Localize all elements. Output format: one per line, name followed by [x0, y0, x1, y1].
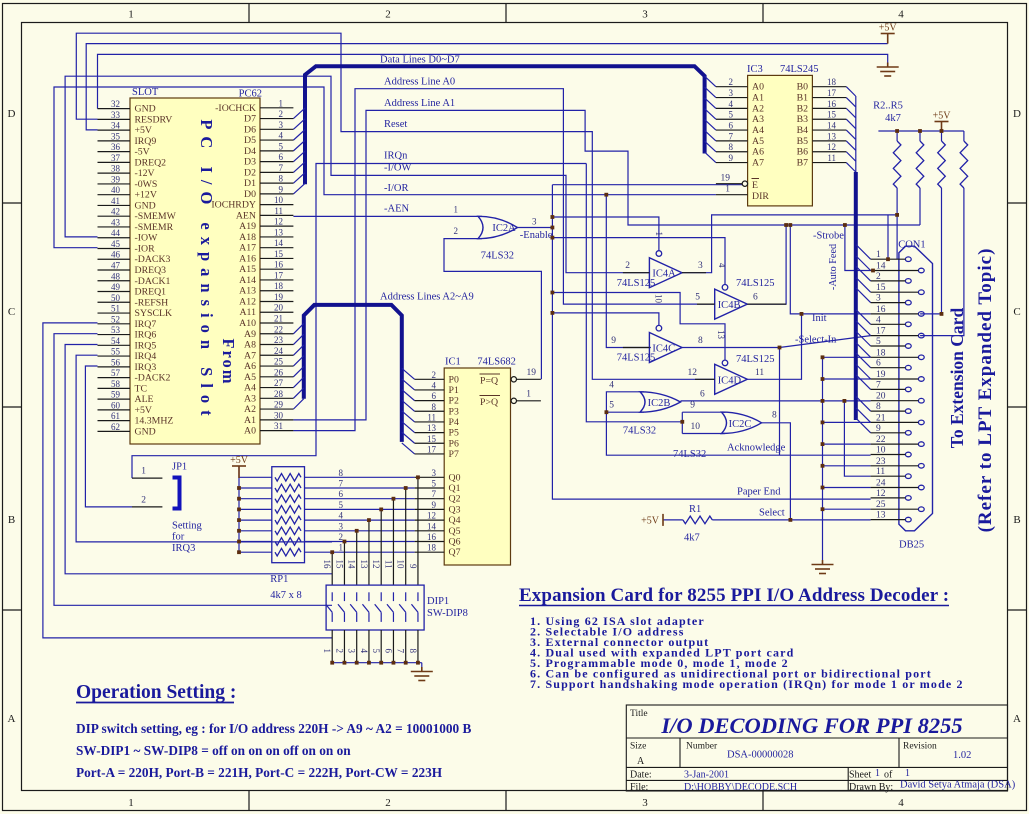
svg-text:14: 14 — [876, 262, 886, 272]
svg-text:Q2: Q2 — [449, 494, 461, 505]
svg-text:4: 4 — [717, 263, 727, 268]
svg-text:Address Line A1: Address Line A1 — [384, 98, 455, 109]
wire -I/OR (pin45 to IC3 DIR and IC4C input9) — [54, 87, 716, 348]
svg-text:11: 11 — [383, 560, 393, 569]
svg-text:5: 5 — [609, 401, 614, 411]
wire Reset (RESDRV pin33 - Reset - Init to CON1 pin16) — [76, 33, 714, 379]
svg-text:RP1: RP1 — [270, 574, 288, 585]
svg-text:Acknowledge: Acknowledge — [727, 443, 786, 454]
svg-text:B5: B5 — [797, 136, 809, 147]
svg-text:A2: A2 — [244, 404, 256, 415]
svg-text:A19: A19 — [239, 221, 256, 232]
rotated label To Extension Card — [947, 248, 996, 533]
svg-text:A10: A10 — [239, 318, 256, 329]
feature list — [530, 614, 964, 691]
RP1 right side wires to IC1 Q pins — [305, 468, 415, 553]
svg-text:P3: P3 — [449, 406, 459, 417]
svg-text:16: 16 — [322, 560, 332, 570]
svg-text:7: 7 — [432, 489, 437, 499]
wire R3 bottom joins -AutoFeed rail — [919, 188, 921, 225]
svg-text:74LS32: 74LS32 — [623, 426, 656, 437]
svg-text:P4: P4 — [449, 417, 459, 428]
svg-text:55: 55 — [111, 347, 121, 357]
svg-text:48: 48 — [111, 271, 121, 281]
svg-text:-IOW: -IOW — [135, 233, 159, 244]
svg-text:IRQn: IRQn — [384, 151, 408, 162]
svg-text:GND: GND — [135, 200, 156, 211]
svg-text:1: 1 — [725, 185, 730, 195]
svg-text:7: 7 — [876, 380, 881, 390]
wire IC2B output6 to Busy CON1 pin20 and pin11 — [681, 401, 871, 476]
svg-text:1: 1 — [875, 768, 880, 779]
svg-text:IRQ7: IRQ7 — [135, 319, 157, 330]
svg-text:B: B — [1013, 514, 1020, 526]
svg-text:53: 53 — [111, 325, 121, 335]
wire IRQ7 (pin52) — [43, 323, 332, 638]
svg-text:74LS125: 74LS125 — [736, 354, 775, 365]
svg-text:B7: B7 — [797, 158, 809, 169]
svg-text:A1: A1 — [752, 93, 764, 104]
svg-text:-I/OR: -I/OR — [384, 183, 409, 194]
svg-text:A9: A9 — [244, 329, 256, 340]
bus entries IC3 B0-B7 — [846, 87, 855, 172]
svg-text:33: 33 — [111, 110, 121, 120]
svg-text:50: 50 — [111, 293, 121, 303]
tri-state buffer IC4A 74LS125 — [617, 232, 706, 290]
svg-text:10: 10 — [691, 422, 701, 432]
svg-text:52: 52 — [111, 314, 120, 324]
svg-text:B4: B4 — [797, 125, 809, 136]
svg-text:Q6: Q6 — [449, 537, 461, 548]
svg-text:Sheet: Sheet — [849, 770, 871, 781]
svg-text:AEN: AEN — [236, 210, 256, 221]
svg-text:8: 8 — [876, 402, 881, 412]
DIP switch risers to Q rows — [332, 477, 418, 585]
svg-text:+5V: +5V — [135, 125, 153, 136]
svg-text:D2: D2 — [244, 167, 256, 178]
svg-text:9: 9 — [690, 401, 695, 411]
svg-text:Select: Select — [759, 507, 785, 518]
wire -I/OW (pin44 to IC4A input2) — [65, 76, 649, 273]
svg-text:A3: A3 — [244, 393, 256, 404]
svg-text:IC4D: IC4D — [718, 375, 742, 386]
svg-text:PC I/O expansion Slot: PC I/O expansion Slot — [197, 119, 216, 422]
svg-text:DREQ1: DREQ1 — [135, 287, 167, 298]
svg-text:30: 30 — [274, 410, 284, 420]
svg-text:A5: A5 — [752, 136, 764, 147]
svg-text:Size: Size — [630, 742, 646, 752]
svg-text:IC1: IC1 — [445, 357, 461, 368]
wire IRQn (JP1 pin1 riser and IRQn line) — [132, 164, 586, 479]
svg-text:25: 25 — [876, 500, 886, 510]
svg-text:+5V: +5V — [933, 111, 952, 122]
svg-text:21: 21 — [274, 314, 283, 324]
svg-text:1: 1 — [322, 649, 332, 654]
wire IRQ6 (pin53) — [54, 334, 332, 606]
svg-text:10: 10 — [396, 560, 406, 570]
svg-text:+5V: +5V — [135, 405, 153, 416]
wire IC4C enable ctrl — [552, 313, 659, 326]
svg-text:2: 2 — [729, 77, 734, 87]
svg-text:Q7: Q7 — [449, 547, 461, 558]
svg-text:5: 5 — [339, 500, 344, 510]
svg-text:14.3MHZ: 14.3MHZ — [135, 416, 174, 427]
svg-text:P1: P1 — [449, 385, 459, 396]
svg-text:ALE: ALE — [135, 394, 154, 405]
svg-text:of: of — [884, 770, 893, 781]
svg-text:26: 26 — [274, 367, 284, 377]
svg-text:IRQ9: IRQ9 — [135, 136, 157, 147]
tri-state buffer IC4B 74LS125 — [695, 263, 786, 319]
svg-text:Q0: Q0 — [449, 472, 461, 483]
svg-text:A: A — [637, 756, 645, 767]
svg-text:-IOCHCK: -IOCHCK — [215, 103, 256, 114]
svg-text:+5V: +5V — [879, 23, 898, 34]
svg-text:1: 1 — [454, 205, 459, 215]
bus entries CON1 stubs — [856, 245, 871, 433]
svg-text:1: 1 — [876, 250, 881, 260]
IC3 left pins A0-A7 (2-9) — [716, 77, 764, 168]
svg-text:A13: A13 — [239, 286, 256, 297]
svg-text:6: 6 — [876, 359, 881, 369]
svg-text:Address Lines A2~A9: Address Lines A2~A9 — [380, 292, 474, 303]
wire IRQ3 (pin56 to JP1 pin2) — [85, 366, 132, 507]
switch DIP1 SW-DIP8 — [322, 560, 468, 654]
svg-text:2: 2 — [625, 261, 630, 271]
title block — [626, 705, 1007, 791]
svg-text:P>Q: P>Q — [480, 397, 498, 408]
svg-text:B0: B0 — [797, 82, 809, 93]
svg-text:B1: B1 — [797, 93, 809, 104]
wire Select (R1 to CON1 pin13) — [663, 519, 871, 521]
svg-text:11: 11 — [755, 368, 764, 378]
svg-text:7: 7 — [339, 479, 344, 489]
svg-text:13: 13 — [827, 131, 837, 141]
svg-text:RESDRV: RESDRV — [135, 114, 173, 125]
svg-text:3-Jan-2001: 3-Jan-2001 — [684, 770, 729, 781]
svg-text:1: 1 — [905, 768, 910, 779]
svg-text:A18: A18 — [239, 232, 256, 243]
wire -AEN (pin11 to IC2A input1) — [293, 215, 482, 217]
wire R2 bottom to CON1 pin1 — [896, 188, 898, 259]
svg-text:39: 39 — [111, 174, 121, 184]
svg-text:P6: P6 — [449, 438, 459, 449]
svg-text:CON1: CON1 — [898, 240, 925, 251]
svg-text:IRQ3: IRQ3 — [172, 543, 195, 554]
svg-text:17: 17 — [274, 270, 284, 280]
wire Init (from A1 rail riser to CON1 pin16) — [790, 225, 870, 314]
svg-text:D4: D4 — [244, 146, 256, 157]
svg-text:A14: A14 — [239, 275, 256, 286]
svg-text:DIP1: DIP1 — [427, 596, 449, 607]
IC3 pin 1 DIR — [716, 185, 769, 203]
svg-text:23: 23 — [274, 335, 284, 345]
svg-text:A7: A7 — [244, 350, 256, 361]
svg-text:4: 4 — [279, 131, 284, 141]
svg-text:5: 5 — [876, 337, 881, 347]
svg-text:19: 19 — [527, 368, 537, 378]
svg-text:-SMEMW: -SMEMW — [135, 211, 177, 222]
svg-text:9: 9 — [408, 564, 418, 569]
svg-text:2: 2 — [385, 797, 391, 809]
svg-text:-DACK1: -DACK1 — [135, 276, 171, 287]
svg-text:23: 23 — [876, 457, 886, 467]
svg-text:P5: P5 — [449, 428, 459, 439]
svg-text:DB25: DB25 — [899, 540, 924, 551]
svg-text:4k7: 4k7 — [885, 113, 901, 124]
svg-text:P0: P0 — [449, 374, 459, 385]
svg-text:4: 4 — [898, 9, 904, 21]
svg-text:13: 13 — [359, 560, 369, 570]
bus entries data bus to IC3 A0-A7 — [705, 76, 716, 162]
svg-text:2: 2 — [279, 109, 284, 119]
svg-text:3: 3 — [347, 649, 357, 654]
wire +5V rail (pin 34 to top-right +5V) — [86, 44, 888, 130]
svg-text:Q5: Q5 — [449, 526, 461, 537]
svg-text:9: 9 — [729, 153, 734, 163]
svg-text:62: 62 — [111, 422, 120, 432]
svg-text:A16: A16 — [239, 253, 256, 264]
svg-text:6: 6 — [729, 121, 734, 131]
svg-text:34: 34 — [111, 121, 121, 131]
wire -Select-In (IC4C output8 to CON1 pin17) — [681, 336, 870, 456]
svg-text:A7: A7 — [752, 158, 764, 169]
svg-text:19: 19 — [721, 174, 731, 184]
svg-text:15: 15 — [827, 110, 837, 120]
svg-text:R2..R5: R2..R5 — [873, 101, 903, 112]
svg-text:13: 13 — [427, 423, 437, 433]
svg-text:20: 20 — [274, 303, 284, 313]
svg-text:8: 8 — [698, 336, 703, 346]
svg-text:20: 20 — [876, 392, 886, 402]
svg-text:Address Line A0: Address Line A0 — [384, 77, 455, 88]
svg-text:C: C — [8, 306, 15, 318]
svg-text:6: 6 — [279, 152, 284, 162]
svg-text:P7: P7 — [449, 449, 459, 460]
svg-text:Q1: Q1 — [449, 483, 461, 494]
svg-text:4: 4 — [876, 315, 881, 325]
svg-text:B3: B3 — [797, 114, 809, 125]
svg-text:8: 8 — [772, 410, 777, 420]
svg-text:B: B — [8, 514, 15, 526]
svg-text:D7: D7 — [244, 114, 256, 125]
svg-text:18: 18 — [274, 281, 284, 291]
svg-text:7: 7 — [279, 163, 284, 173]
svg-text:2: 2 — [385, 9, 391, 21]
svg-text:+12V: +12V — [135, 190, 157, 201]
OR gate IC2B 74LS32 — [609, 380, 705, 436]
svg-text:-I/OW: -I/OW — [384, 163, 411, 174]
svg-text:3: 3 — [729, 88, 734, 98]
svg-text:A: A — [1013, 713, 1021, 725]
svg-text:D5: D5 — [244, 135, 256, 146]
wire IC2C output8 to Select — [762, 423, 791, 520]
wire IC4B output6 to -AutoFeed net — [747, 225, 786, 304]
svg-text:A3: A3 — [752, 114, 764, 125]
svg-text:David Setya Atmaja (DSA): David Setya Atmaja (DSA) — [900, 780, 1016, 791]
svg-text:Q3: Q3 — [449, 504, 461, 515]
svg-text:15: 15 — [274, 249, 284, 259]
wire IC4D output11 to Init net — [747, 314, 801, 379]
svg-text:Expansion Card for 8255 PPI I/: Expansion Card for 8255 PPI I/O Address … — [519, 585, 949, 606]
svg-text:-Enable: -Enable — [520, 230, 553, 241]
svg-text:21: 21 — [876, 413, 886, 423]
CON1 left column pins 1-13 — [871, 250, 912, 522]
svg-text:for: for — [172, 532, 185, 543]
svg-text:P2: P2 — [449, 396, 459, 407]
svg-text:Operation Setting :: Operation Setting : — [76, 682, 236, 703]
svg-text:43: 43 — [111, 217, 121, 227]
bus Data Lines D0~D7 — [305, 66, 705, 184]
IC1 P=Q output pin 19 — [480, 368, 541, 387]
svg-text:15: 15 — [876, 283, 886, 293]
CON1 right column pins 14-25 — [871, 262, 925, 512]
svg-text:14: 14 — [827, 121, 837, 131]
svg-text:1: 1 — [279, 98, 284, 108]
svg-text:2: 2 — [432, 370, 437, 380]
wire IRQ5 (pin54) — [65, 345, 332, 574]
svg-text:18: 18 — [827, 77, 837, 87]
svg-text:37: 37 — [111, 153, 121, 163]
ground symbol below DIP1 — [411, 667, 433, 681]
svg-text:28: 28 — [274, 389, 284, 399]
svg-text:11: 11 — [876, 467, 885, 477]
svg-text:D3: D3 — [244, 157, 256, 168]
svg-text:Q4: Q4 — [449, 515, 461, 526]
wire GND rail (pin 32 to top-right ground) — [98, 54, 888, 108]
resistor R1 4k7 — [683, 504, 712, 543]
+5V symbol top right — [881, 34, 895, 44]
svg-text:1.02: 1.02 — [953, 750, 971, 761]
svg-text:40: 40 — [111, 185, 121, 195]
svg-text:A0: A0 — [244, 426, 256, 437]
svg-text:11: 11 — [827, 153, 836, 163]
svg-text:19: 19 — [274, 292, 284, 302]
svg-text:74LS125: 74LS125 — [736, 278, 775, 289]
svg-text:3: 3 — [698, 261, 703, 271]
rotated label From PC I/O expansion Slot — [197, 119, 238, 422]
svg-text:2: 2 — [141, 495, 146, 505]
svg-text:4k7 x 8: 4k7 x 8 — [270, 590, 302, 601]
svg-text:22: 22 — [274, 324, 283, 334]
svg-text:-DACK3: -DACK3 — [135, 254, 171, 265]
svg-text:-REFSH: -REFSH — [135, 297, 169, 308]
svg-text:A5: A5 — [244, 372, 256, 383]
svg-text:1: 1 — [526, 389, 531, 399]
jumper JP1 — [132, 462, 187, 509]
svg-text:74LS125: 74LS125 — [617, 353, 656, 364]
svg-text:Number: Number — [686, 742, 718, 752]
svg-text:IRQ6: IRQ6 — [135, 330, 157, 341]
+5V symbol at R1 — [641, 514, 663, 527]
svg-text:10: 10 — [876, 446, 886, 456]
svg-text:IRQ4: IRQ4 — [135, 351, 157, 362]
svg-text:D: D — [8, 108, 16, 120]
DIP bottom common ground wire — [332, 630, 422, 667]
svg-text:-DACK2: -DACK2 — [135, 373, 171, 384]
svg-text:1: 1 — [128, 797, 134, 809]
svg-text:A17: A17 — [239, 243, 256, 254]
svg-text:SLOT: SLOT — [132, 87, 159, 98]
svg-text:18: 18 — [427, 543, 437, 553]
SLOT left pins 32-62 — [98, 99, 177, 437]
svg-text:+5V: +5V — [230, 455, 249, 466]
svg-text:A6: A6 — [244, 361, 256, 372]
svg-text:5: 5 — [729, 110, 734, 120]
svg-text:12: 12 — [876, 489, 886, 499]
IC3 right pins B0-B7 (18-11) — [797, 77, 847, 168]
svg-text:74LS32: 74LS32 — [481, 250, 514, 261]
svg-text:17: 17 — [827, 88, 837, 98]
svg-text:4: 4 — [898, 797, 904, 809]
svg-text:17: 17 — [427, 444, 437, 454]
svg-text:74LS32: 74LS32 — [673, 449, 706, 460]
IC1 Q0-Q7 pins — [415, 468, 461, 558]
svg-text:DREQ2: DREQ2 — [135, 157, 167, 168]
svg-text:8: 8 — [279, 174, 284, 184]
svg-text:E: E — [752, 180, 758, 191]
bus entries SLOT pins 2-9 to data bus — [293, 108, 305, 194]
svg-text:8: 8 — [339, 468, 344, 478]
svg-text:Drawn By:: Drawn By: — [849, 782, 893, 793]
OR gate IC2C 74LS32 — [673, 401, 777, 460]
svg-text:11: 11 — [427, 412, 436, 422]
svg-text:-0WS: -0WS — [135, 179, 158, 190]
svg-text:DREQ3: DREQ3 — [135, 265, 167, 276]
wire -Enable (IC2A output3 to IC3 E and buffer enables) — [517, 185, 742, 315]
svg-text:4: 4 — [359, 649, 369, 654]
connector SLOT PC62 (PC I/O expansion slot) — [130, 87, 262, 444]
svg-text:4: 4 — [339, 511, 344, 521]
svg-text:SW-DIP8: SW-DIP8 — [427, 608, 468, 619]
svg-text:SW-DIP1 ~ SW-DIP8 = off on on: SW-DIP1 ~ SW-DIP8 = off on on on off on … — [76, 743, 351, 758]
svg-text:6: 6 — [383, 649, 393, 654]
svg-text:D1: D1 — [244, 178, 256, 189]
svg-text:3: 3 — [279, 120, 284, 130]
wire IC4A enable ctrl — [552, 217, 659, 251]
svg-text:5: 5 — [432, 479, 437, 489]
wire R4 bottom to Init CON1 pin16 — [920, 188, 941, 314]
tri-state buffer IC4C 74LS125 — [611, 294, 703, 364]
+5V symbol above RP1 — [232, 466, 246, 478]
svg-text:5: 5 — [695, 293, 700, 303]
svg-text:+5V: +5V — [641, 515, 660, 526]
svg-text:51: 51 — [111, 304, 120, 314]
svg-text:3: 3 — [876, 294, 881, 304]
wire Address Line A1 (pin30 to -AutoFeed route) — [293, 110, 920, 420]
svg-text:6: 6 — [339, 489, 344, 499]
svg-text:IRQ3: IRQ3 — [135, 362, 157, 373]
svg-text:14: 14 — [427, 521, 437, 531]
svg-text:Init: Init — [812, 313, 827, 324]
svg-text:27: 27 — [274, 378, 284, 388]
svg-text:IC4A: IC4A — [652, 269, 676, 280]
svg-text:12: 12 — [274, 217, 283, 227]
svg-text:41: 41 — [111, 196, 120, 206]
wire IC4D enable ctrl — [552, 293, 725, 361]
IC1 P0-P7 pins — [415, 370, 459, 460]
heading Operation Setting — [76, 682, 236, 703]
svg-text:Paper End: Paper End — [737, 486, 781, 497]
bus entries SLOT pins 22-29 to address bus — [293, 323, 303, 409]
bus IC3 B outputs to CON1 data pins — [855, 96, 857, 420]
svg-text:19: 19 — [876, 370, 886, 380]
svg-text:32: 32 — [111, 99, 120, 109]
operation setting text — [76, 721, 472, 780]
svg-text:D: D — [1013, 108, 1021, 120]
svg-text:24: 24 — [274, 346, 284, 356]
bus Address Lines A2~A9 — [304, 305, 402, 442]
